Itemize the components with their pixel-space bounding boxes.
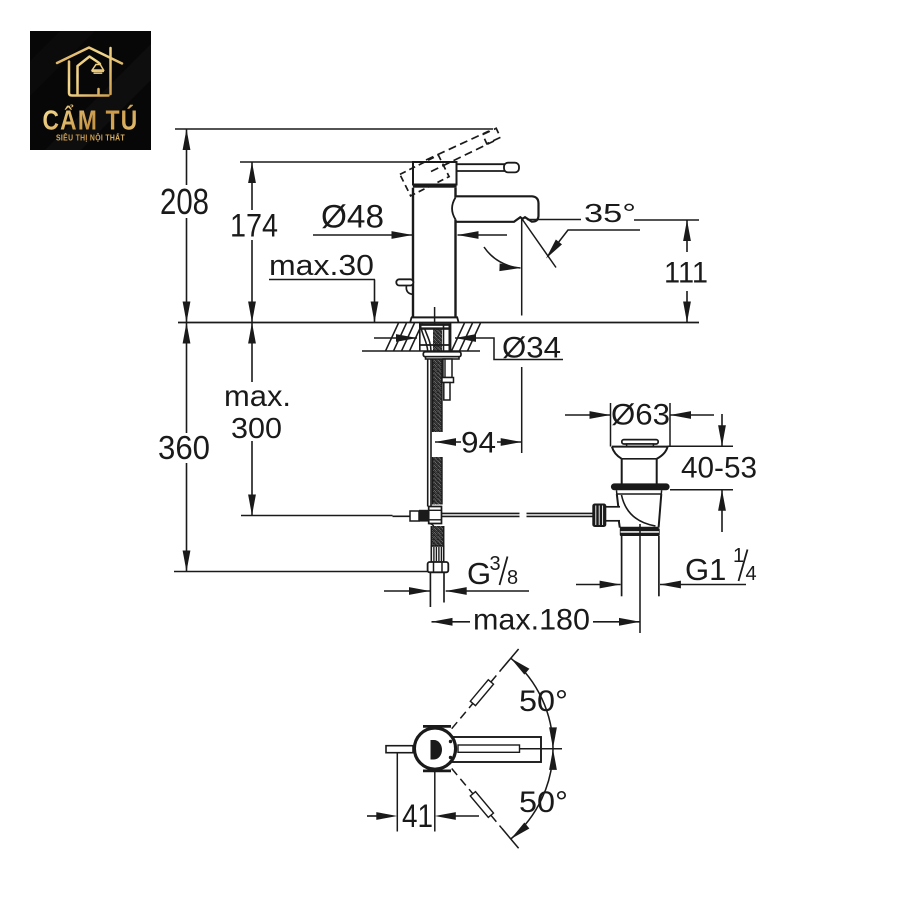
dimension max.300	[224, 323, 291, 516]
rubber seal ring	[611, 483, 670, 490]
logo shower head	[92, 65, 104, 74]
pop-up pull rod (vertical)	[428, 359, 431, 507]
svg-text:300: 300	[231, 413, 282, 445]
dimension max.30 deck thickness	[269, 250, 378, 323]
deck hatching left of faucet	[386, 323, 423, 351]
dimension G3/8 supply thread	[384, 553, 529, 595]
svg-text:G1: G1	[685, 552, 726, 587]
dimension diameter 34 deck hole	[374, 332, 563, 365]
pull rod coupler at hose	[393, 507, 442, 528]
drain centre line	[639, 524, 641, 633]
G3/8 hex nut	[428, 562, 449, 572]
svg-text:40-53: 40-53	[681, 452, 757, 485]
dimension diameter 48	[313, 199, 507, 239]
svg-text:8: 8	[507, 567, 518, 589]
swivel angle arc lower	[508, 749, 557, 842]
swivel range lower 50 deg dashed line	[452, 769, 519, 849]
logo CAM TU badge	[30, 31, 151, 150]
swivel range upper 50 deg dashed line	[452, 649, 519, 729]
deck underside line	[362, 350, 480, 352]
svg-text:CẨM TÚ: CẨM TÚ	[43, 105, 139, 136]
supply connection datum line (360)	[174, 571, 430, 573]
spout	[455, 196, 539, 222]
svg-text:max.180: max.180	[473, 604, 590, 637]
pop-up waste flange	[612, 447, 668, 484]
hose lower braid section	[431, 526, 443, 546]
hose end datum line (max.300)	[241, 515, 393, 517]
dimension diameter 63 flange	[565, 399, 714, 447]
svg-text:Ø63: Ø63	[611, 399, 670, 432]
lever arm	[457, 163, 520, 173]
flexible supply hose lower section	[433, 457, 443, 505]
svg-text:Ø34: Ø34	[502, 332, 561, 365]
faucet body cylinder	[413, 188, 456, 318]
dimension max.180 drain offset	[432, 604, 641, 637]
svg-text:3: 3	[490, 553, 501, 575]
dimension 94 spout reach	[435, 427, 522, 460]
svg-text:35°: 35°	[584, 198, 636, 228]
swivel angle arc upper	[508, 655, 557, 748]
plan view faucet body circle	[414, 726, 455, 771]
countertop deck line	[178, 322, 699, 324]
svg-text:1: 1	[733, 545, 744, 567]
svg-text:50°: 50°	[519, 786, 568, 819]
datum line top of handle block (174)	[240, 161, 414, 163]
logo house icon	[57, 48, 122, 96]
svg-text:max.: max.	[224, 380, 291, 413]
svg-text:50°: 50°	[519, 685, 568, 718]
svg-text:Ø48: Ø48	[321, 199, 384, 235]
dimension G1 1/4 waste thread	[576, 545, 757, 588]
svg-text:174: 174	[230, 208, 278, 244]
waste valve housing	[617, 490, 662, 527]
svg-text:G: G	[467, 556, 491, 591]
aerator stream line 35 degrees	[484, 219, 556, 454]
deck hatching right of faucet	[452, 323, 481, 351]
label 50 deg upper	[519, 685, 568, 718]
flexible supply hose upper section	[433, 359, 443, 432]
faucet handle block	[413, 162, 457, 188]
datum line top of lifted lever (208)	[175, 128, 493, 130]
svg-text:4: 4	[746, 563, 757, 585]
svg-text:360: 360	[158, 429, 210, 466]
threaded mounting stud and nut	[442, 359, 454, 400]
dimension 208	[160, 129, 209, 323]
waste knob stem	[605, 507, 621, 521]
waste collar ring	[620, 528, 660, 536]
lever arm raised position (dashed)	[426, 128, 500, 171]
faucet centre line	[434, 307, 436, 327]
dimension 40-53 mounting range	[668, 414, 758, 532]
horizontal pop-up linkage rod	[442, 513, 593, 516]
faucet base plinth	[410, 317, 458, 322]
waste tailpipe	[622, 536, 659, 596]
mounting washer under deck	[423, 352, 461, 359]
handle block raised position (dashed)	[400, 155, 449, 196]
plan view handle lever (top)	[431, 740, 453, 760]
svg-text:SIÊU THỊ NỘI THẤT: SIÊU THỊ NỘI THẤT	[56, 132, 125, 143]
dimension 111 spout height	[664, 220, 708, 323]
plan view spout centre line	[520, 748, 562, 750]
dimension 41	[367, 754, 479, 835]
plan view spout	[446, 737, 541, 762]
svg-text:208: 208	[160, 181, 209, 222]
svg-text:111: 111	[664, 257, 708, 290]
dimension 174	[230, 162, 278, 323]
pop-up waste flange cap	[622, 440, 658, 447]
pop-up rod knob behind spout	[396, 279, 413, 294]
supply tube end	[430, 572, 444, 607]
dimension 360	[158, 323, 210, 572]
svg-text:41: 41	[402, 798, 433, 834]
plan view pull rod tab	[386, 746, 413, 753]
svg-text:94: 94	[461, 427, 496, 460]
mounting shank through deck	[420, 323, 451, 351]
label 50 deg lower	[519, 786, 568, 819]
knurled hose ferrule	[431, 546, 443, 562]
svg-text:max.30: max.30	[269, 250, 374, 282]
label 35 degrees with leader	[527, 198, 699, 261]
knurled waste knob	[592, 504, 606, 528]
